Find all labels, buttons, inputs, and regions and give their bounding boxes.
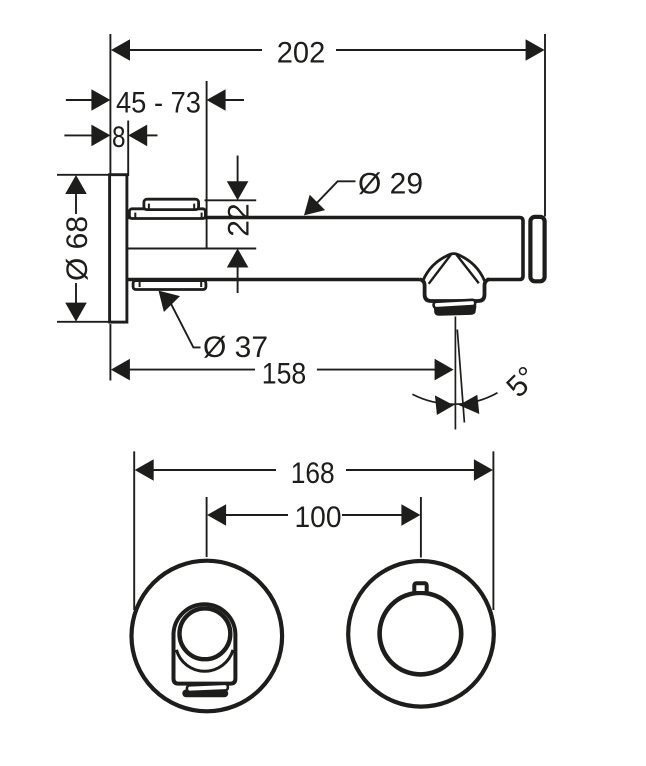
svg-text:Ø 29: Ø 29 [358,168,423,201]
nozzle cup [420,279,490,301]
sleeve top ticks [148,204,150,209]
dimension diameter 68 [57,175,110,322]
sleeve top narrow step [144,199,199,209]
svg-text:8: 8 [112,121,126,154]
svg-text:158: 158 [262,357,307,390]
spout barrel [128,218,524,280]
handle inner circle [380,593,462,675]
aerator front white lip [187,684,228,692]
svg-text:22: 22 [223,203,256,236]
dimension 22 [205,156,257,294]
leader diameter 37 [159,291,269,364]
sleeve bottom step [133,281,206,290]
spout bore circle [180,608,231,659]
dimension 168 [134,451,493,610]
sleeve bottom ticks [139,282,141,287]
handle escutcheon outer circle [348,561,494,707]
wall plate [110,175,127,322]
extension line: spout end (202) [544,34,546,217]
dimension 8 [64,121,157,177]
spout crescent [176,650,233,671]
dimension 158 [110,324,453,390]
spout escutcheon outer circle [132,561,283,712]
svg-text:45 - 73: 45 - 73 [116,87,201,120]
leader diameter 29 [304,168,423,216]
svg-text:168: 168 [291,457,335,490]
spout centerline reference [119,248,257,250]
svg-text:5°: 5° [500,360,544,404]
nozzle pyramid inner facets [429,255,479,284]
sleeve top wide step [129,209,205,219]
dimension 202 [111,37,545,70]
svg-text:Ø 68: Ø 68 [61,216,94,281]
svg-text:202: 202 [277,37,326,70]
dimension 5 degrees [412,360,544,415]
dimension 45 - 73 [66,81,244,248]
aerator front black band [182,690,228,698]
dimension 100 [207,497,421,558]
extension line: wall face [109,34,111,175]
front view [132,451,494,711]
water stream 5 degree line [457,330,464,423]
nozzle pyramid outer curves [423,254,485,281]
spout front arch [174,604,236,683]
water stream reference line [454,317,456,430]
svg-text:Ø 37: Ø 37 [203,331,268,364]
handle top tab [414,583,426,593]
svg-text:100: 100 [295,501,342,534]
aerator outlet side view [433,300,475,309]
barrel end cap [530,217,544,281]
